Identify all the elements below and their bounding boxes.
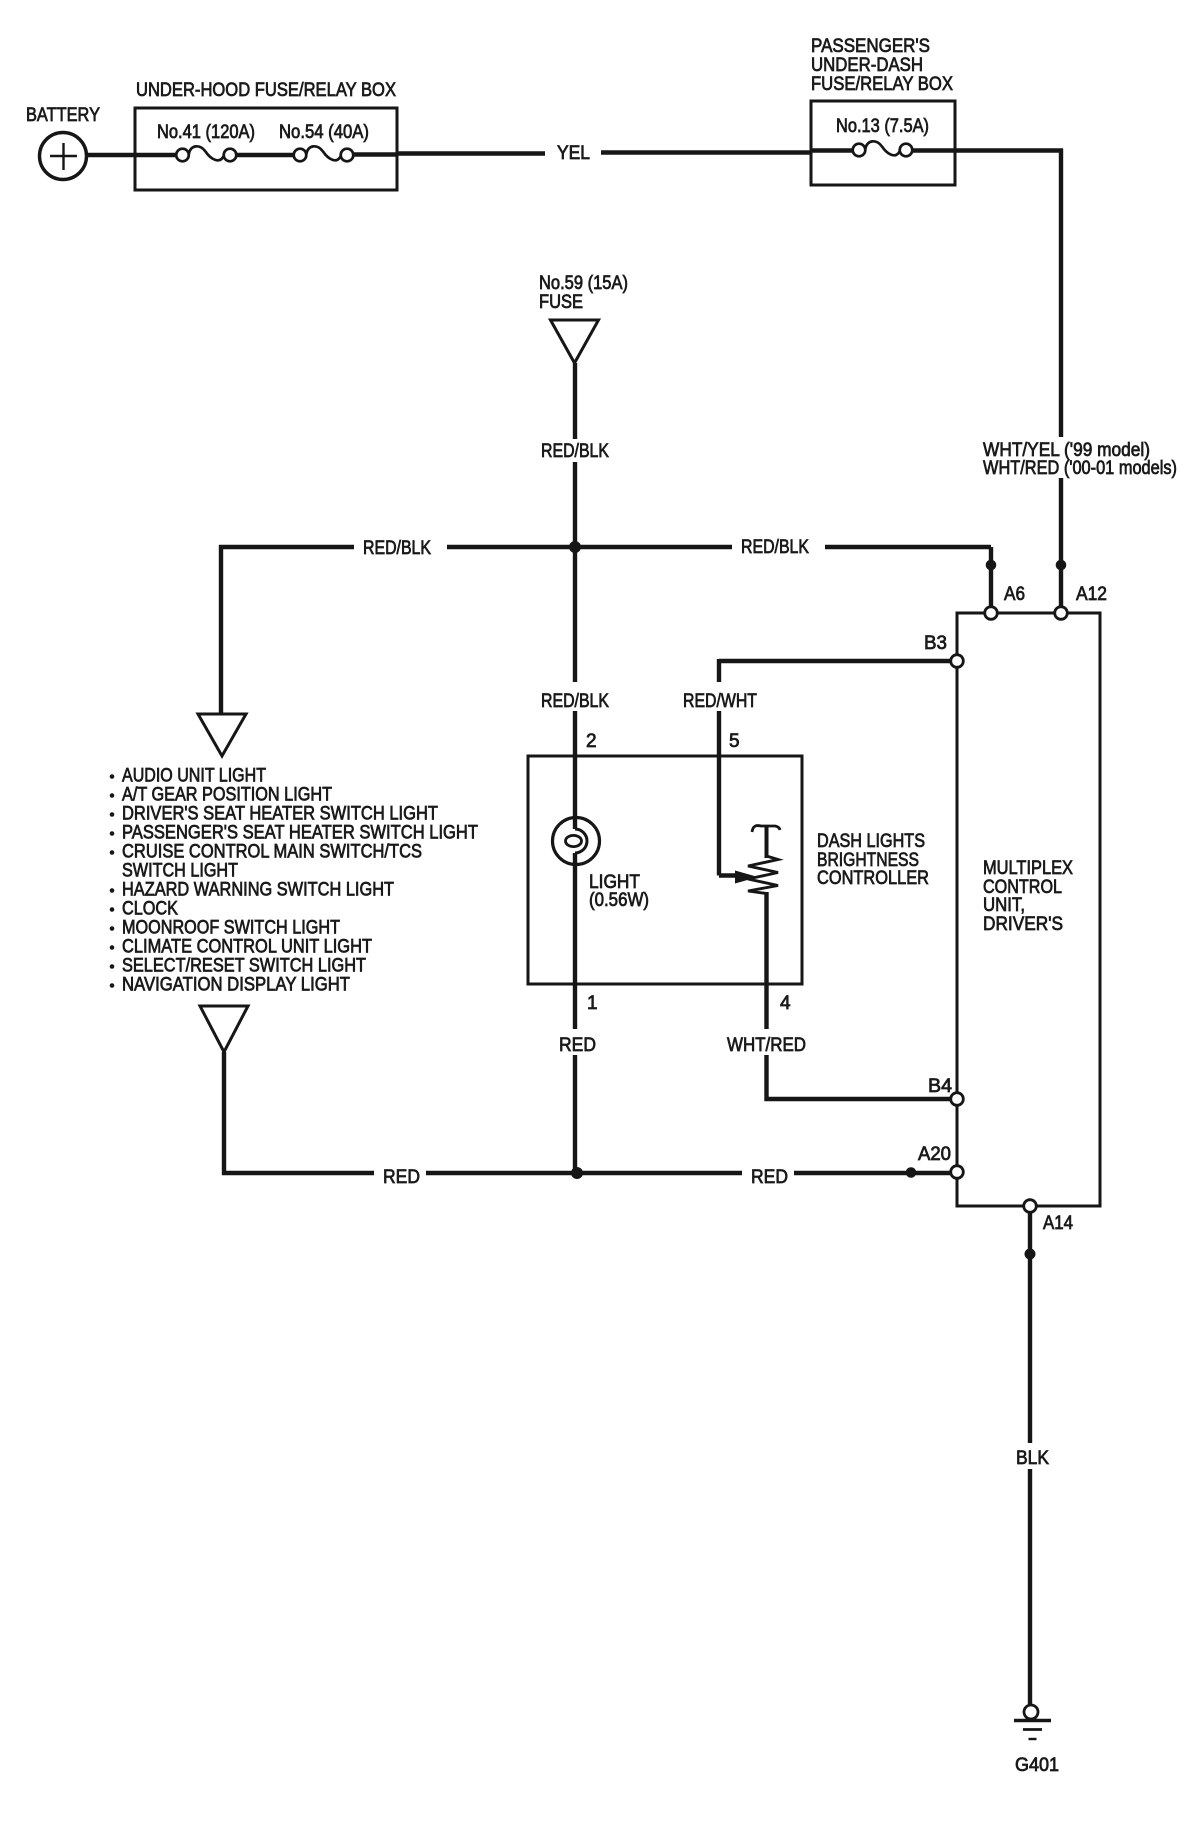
svg-text:FUSE: FUSE xyxy=(539,292,583,313)
svg-text:B4: B4 xyxy=(928,1076,952,1097)
svg-text:(0.56W): (0.56W) xyxy=(589,890,649,911)
svg-text:YEL: YEL xyxy=(557,143,590,164)
svg-text:NAVIGATION DISPLAY LIGHT: NAVIGATION DISPLAY LIGHT xyxy=(122,975,350,996)
svg-text:AUDIO UNIT LIGHT: AUDIO UNIT LIGHT xyxy=(122,766,266,787)
svg-text:SELECT/RESET SWITCH LIGHT: SELECT/RESET SWITCH LIGHT xyxy=(122,956,366,977)
svg-text:G401: G401 xyxy=(1015,1755,1059,1776)
svg-text:HAZARD WARNING SWITCH LIGHT: HAZARD WARNING SWITCH LIGHT xyxy=(122,880,394,901)
svg-text:WHT/RED ('00-01 models): WHT/RED ('00-01 models) xyxy=(983,458,1177,479)
svg-text:A14: A14 xyxy=(1043,1213,1073,1234)
svg-text:No.41 (120A): No.41 (120A) xyxy=(157,122,255,143)
svg-text:RED: RED xyxy=(559,1035,596,1056)
svg-text:RED/BLK: RED/BLK xyxy=(541,441,609,462)
svg-text:MULTIPLEX: MULTIPLEX xyxy=(983,858,1073,879)
svg-text:DRIVER'S: DRIVER'S xyxy=(983,914,1063,935)
svg-text:No.54 (40A): No.54 (40A) xyxy=(279,122,369,143)
svg-text:No.59 (15A): No.59 (15A) xyxy=(539,273,628,294)
svg-text:SWITCH LIGHT: SWITCH LIGHT xyxy=(122,861,238,882)
svg-text:B3: B3 xyxy=(924,633,947,654)
svg-text:UNDER-HOOD FUSE/RELAY BOX: UNDER-HOOD FUSE/RELAY BOX xyxy=(136,80,396,101)
svg-text:PASSENGER'S SEAT HEATER SWITCH: PASSENGER'S SEAT HEATER SWITCH LIGHT xyxy=(122,823,478,844)
svg-text:A/T GEAR POSITION LIGHT: A/T GEAR POSITION LIGHT xyxy=(122,785,332,806)
svg-text:No.13 (7.5A): No.13 (7.5A) xyxy=(836,116,929,137)
svg-text:RED/BLK: RED/BLK xyxy=(363,538,431,559)
svg-text:5: 5 xyxy=(729,731,740,752)
svg-text:BATTERY: BATTERY xyxy=(26,105,100,126)
svg-text:RED: RED xyxy=(383,1167,420,1188)
svg-text:CLIMATE CONTROL UNIT LIGHT: CLIMATE CONTROL UNIT LIGHT xyxy=(122,937,372,958)
svg-text:A20: A20 xyxy=(918,1144,951,1165)
svg-text:DRIVER'S SEAT HEATER SWITCH LI: DRIVER'S SEAT HEATER SWITCH LIGHT xyxy=(122,804,438,825)
svg-text:UNIT,: UNIT, xyxy=(983,895,1025,916)
svg-text:2: 2 xyxy=(586,731,597,752)
svg-text:A6: A6 xyxy=(1004,584,1025,605)
svg-text:DASH LIGHTS: DASH LIGHTS xyxy=(817,831,925,852)
svg-text:CONTROLLER: CONTROLLER xyxy=(817,868,929,889)
svg-text:RED/WHT: RED/WHT xyxy=(683,691,757,712)
svg-text:UNDER-DASH: UNDER-DASH xyxy=(811,55,923,76)
svg-text:1: 1 xyxy=(587,993,598,1014)
svg-text:RED: RED xyxy=(751,1167,788,1188)
svg-text:RED/BLK: RED/BLK xyxy=(541,691,609,712)
svg-text:RED/BLK: RED/BLK xyxy=(741,537,809,558)
svg-text:4: 4 xyxy=(780,993,791,1014)
svg-text:A12: A12 xyxy=(1076,584,1107,605)
svg-text:WHT/RED: WHT/RED xyxy=(727,1035,806,1056)
svg-text:BLK: BLK xyxy=(1016,1448,1049,1469)
svg-text:CLOCK: CLOCK xyxy=(122,899,178,920)
svg-text:MOONROOF SWITCH LIGHT: MOONROOF SWITCH LIGHT xyxy=(122,918,340,939)
svg-text:CRUISE CONTROL MAIN SWITCH/TCS: CRUISE CONTROL MAIN SWITCH/TCS xyxy=(122,842,422,863)
svg-text:PASSENGER'S: PASSENGER'S xyxy=(811,36,930,57)
svg-text:FUSE/RELAY BOX: FUSE/RELAY BOX xyxy=(811,74,953,95)
